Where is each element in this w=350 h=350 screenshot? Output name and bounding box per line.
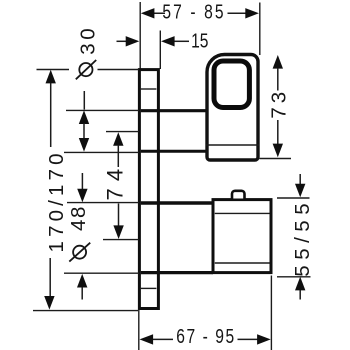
extension line knob top right: [277, 197, 310, 199]
dimension 74 bottom arrow: [118, 204, 120, 226]
dimension 57-85 right arrow: [245, 8, 259, 18]
dimension 67-95 left arrow: [140, 334, 154, 344]
knob safety tab: [232, 191, 245, 199]
dimension 57-85 left arrow: [141, 8, 155, 18]
extension line stem top left: [66, 109, 139, 111]
dimension 30 top arrow: [79, 110, 89, 124]
svg-text:170/170: 170/170: [45, 149, 68, 252]
upper stem tube bottom edge: [141, 150, 207, 153]
dimension 15 right arrow with tail: [174, 40, 189, 42]
svg-text:74: 74: [103, 162, 128, 201]
leader line diameter 30: [83, 91, 85, 110]
dimension 30 connector: [83, 123, 85, 139]
knob body outline: [213, 200, 271, 273]
handle inner ring: [214, 61, 249, 108]
plate corner line bottom: [141, 287, 157, 289]
svg-text:55/55: 55/55: [291, 198, 314, 277]
wire extension line wall plane bottom: [138, 310, 140, 350]
svg-text:48: 48: [67, 205, 90, 231]
extension line knob bottom left: [64, 272, 139, 274]
extension line stem bottom left: [64, 151, 139, 153]
wire extension line plate front top: [159, 31, 161, 70]
svg-text:57 - 85: 57 - 85: [162, 1, 225, 23]
svg-text:30: 30: [77, 25, 100, 55]
dimension 55/55 top arrow with tail: [299, 174, 301, 184]
wall plate outline: [139, 70, 158, 309]
extension line knob bottom right: [277, 276, 311, 278]
dimension 73 top arrow: [273, 55, 283, 69]
lower stem bottom edge: [141, 271, 213, 274]
svg-text:15: 15: [191, 29, 208, 51]
extension line knob top left: [67, 202, 139, 204]
svg-text:67 - 95: 67 - 95: [176, 325, 235, 347]
extension line knob front bottom: [270, 276, 272, 350]
extension line knob axis: [103, 239, 139, 241]
svg-text:73: 73: [267, 88, 290, 119]
handle bottom feature line: [206, 144, 259, 146]
dimension 48 top arrow with tail: [81, 173, 83, 191]
dimension 67-95 right arrow: [257, 334, 271, 344]
lower stem top edge: [141, 201, 213, 204]
dimension 67-95 line segments: [153, 338, 259, 340]
dimension 15 left arrow with tail: [117, 40, 128, 42]
wire extension line wall plane top: [139, 2, 141, 69]
dimension 57-85 line segments: [154, 12, 246, 14]
handle outer outline: [207, 55, 258, 161]
extension line plate bottom left: [33, 310, 138, 312]
extension line handle axis: [106, 131, 139, 133]
diameter symbol for 48: [73, 246, 86, 259]
knob grip line top: [215, 212, 270, 214]
dimension 73 bottom arrow: [277, 120, 279, 144]
upper stem tube top edge: [141, 109, 207, 112]
knob grip line bottom: [215, 262, 270, 264]
dimension 48 bottom arrow with tail: [77, 274, 87, 288]
dimension 55/55 bottom arrow with tail: [295, 277, 305, 291]
extension line handle bottom right: [260, 158, 292, 160]
dimension 74 top arrow: [113, 132, 123, 146]
extension line plate top left: [37, 69, 140, 71]
diameter symbol for 30: [79, 63, 92, 76]
plate corner line top: [141, 88, 157, 90]
dimension 30 bottom arrow: [79, 138, 89, 152]
dimension 170/170 top arrow: [46, 70, 56, 84]
wire extension line handle front top: [259, 3, 261, 56]
dimension 170/170 bottom arrow: [49, 258, 51, 297]
